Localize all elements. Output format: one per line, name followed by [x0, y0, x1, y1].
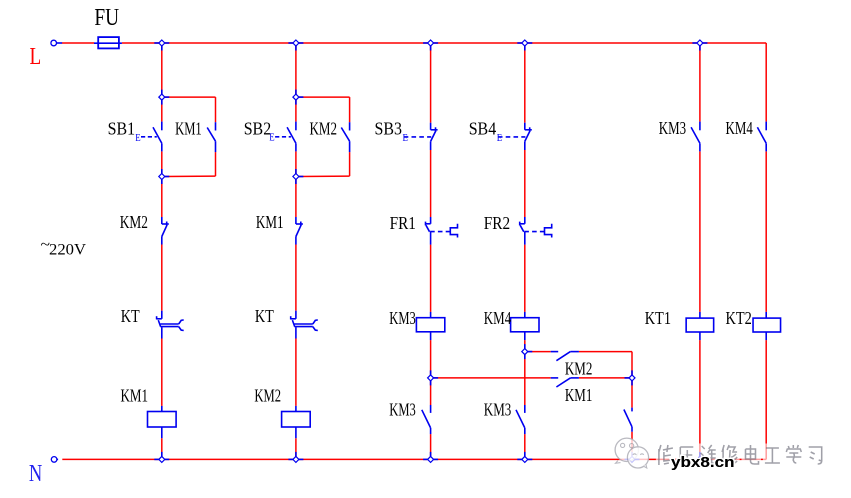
wire b1 top — [161, 43, 163, 97]
label KM1 interlock — [256, 212, 284, 232]
svg-text:KM1: KM1 — [565, 385, 593, 405]
coil KM1 — [148, 406, 177, 438]
thermal relay contact FR2 (NC) — [519, 217, 551, 245]
label KT2 — [726, 308, 752, 328]
contact KM1 (NO, horizontal line 2) — [551, 378, 579, 387]
label KM4 coil — [484, 308, 511, 328]
label KM4 branch7 — [726, 118, 753, 138]
svg-text:KM1: KM1 — [256, 212, 284, 232]
wire b3 contact-to-N — [430, 434, 432, 459]
push button SB2 (NO) — [287, 122, 296, 152]
coil KM3 — [416, 312, 444, 340]
wire b7 coil-to-N — [765, 340, 767, 459]
SB2 actuator dashed link — [275, 136, 291, 138]
svg-text:SB1: SB1 — [108, 119, 136, 139]
contact KM2 (NO seal-in, branch 2) — [341, 122, 349, 152]
wire b1 loop-bottom-to-KM2 — [161, 177, 163, 218]
wire b4 coil-to-node — [524, 340, 526, 352]
svg-text:KM4: KM4 — [484, 308, 511, 328]
wire L bus segment 2 — [122, 42, 766, 44]
contact KM1 (NO, branch 5) — [624, 408, 632, 432]
svg-text:KT: KT — [121, 306, 140, 326]
svg-text:KM1: KM1 — [175, 119, 202, 139]
wire line1 right — [579, 351, 632, 353]
wire b2 SB2-to-loop-bottom — [295, 151, 297, 176]
label KM2 seal-in — [310, 119, 338, 139]
label ~220V tilde — [41, 237, 51, 254]
node N-b5 — [625, 452, 640, 463]
label KM3 branch6 — [659, 118, 686, 138]
svg-text:KM4: KM4 — [726, 118, 753, 138]
node N-b2 — [288, 452, 303, 463]
node N-b1 — [154, 452, 169, 463]
wire b5 line1-to-node — [631, 352, 633, 378]
svg-text:SB3: SB3 — [375, 119, 403, 139]
terminal N — [51, 457, 58, 463]
contact KM1 (NC interlock, branch 2) — [296, 217, 303, 245]
svg-text:FU: FU — [94, 4, 119, 31]
node b2 seal-in top — [293, 90, 304, 105]
svg-text:N: N — [29, 460, 43, 487]
label KT branch1 — [121, 306, 140, 326]
node L-b1 — [154, 40, 169, 51]
wire b2 loop top-to-SB2 — [295, 97, 297, 122]
node L-b6 — [692, 40, 707, 51]
svg-text:E: E — [135, 133, 140, 144]
label SB2 — [244, 119, 272, 139]
wire b6 top — [699, 43, 701, 122]
contact KM3 (NO, branch 4 bottom) — [516, 405, 525, 434]
wire b5 node-to-contact — [631, 378, 633, 408]
node b1 seal-in top — [159, 90, 170, 105]
label KM3 coil — [389, 308, 416, 328]
wire b2 loop-bottom-to-KM1 — [295, 177, 297, 218]
label ~220V value — [49, 242, 87, 259]
wire b5 contact-to-N — [631, 432, 633, 460]
push button SB1 (NO) — [153, 122, 162, 152]
svg-text:KM2: KM2 — [565, 359, 593, 379]
contact KM3 (NO, branch 6) — [691, 122, 700, 152]
push button SB4 (NC) — [525, 123, 532, 150]
contact KM1 (NO seal-in, branch 1) — [207, 122, 215, 152]
label KT1 — [645, 308, 671, 328]
svg-text:E: E — [269, 133, 274, 144]
svg-text:FR1: FR1 — [390, 213, 416, 233]
label FR2 — [484, 213, 510, 233]
node L-b3 — [423, 40, 438, 51]
time relay contact KT (NC delayed, branch 1) — [156, 311, 183, 339]
svg-text:KM1: KM1 — [121, 385, 149, 405]
contact KM2 (NC interlock, branch 1) — [162, 217, 169, 245]
label KM2 coil — [254, 385, 281, 405]
label KM1 seal-in — [175, 119, 202, 139]
wire b3 FR1-to-coil — [430, 245, 432, 312]
svg-text:E: E — [403, 133, 408, 144]
wire b4 node-to-KM3contact — [524, 352, 526, 405]
wire b3 coil-to-node — [430, 340, 432, 378]
wire b1 seal-in loop bottom rail — [165, 152, 216, 176]
label FU — [94, 4, 119, 31]
wire b1 seal-in loop top rail — [165, 97, 216, 122]
label SB1 — [108, 119, 136, 139]
wire b4 FR2-to-coil — [524, 245, 526, 312]
node L-b2 — [288, 40, 303, 51]
wire b6 contact-to-coil — [699, 152, 701, 312]
svg-text:ybx8.cn: ybx8.cn — [671, 455, 735, 471]
wire b3 top — [430, 43, 432, 123]
coil KM4 — [511, 312, 539, 340]
wire N bus — [62, 458, 766, 460]
svg-text:FR2: FR2 — [484, 213, 510, 233]
label N — [29, 460, 43, 487]
label KM1 horizontal — [565, 385, 593, 405]
wire b1 coil-to-N — [161, 438, 163, 459]
svg-text:KM3: KM3 — [659, 118, 686, 138]
svg-text:KM3: KM3 — [389, 400, 416, 420]
svg-text:SB4: SB4 — [469, 119, 497, 139]
wire b3 SB3-to-FR1 — [430, 150, 432, 217]
SB3 actuator dashed link — [404, 136, 432, 138]
svg-text:KT2: KT2 — [726, 308, 752, 328]
svg-text:L: L — [30, 43, 42, 70]
wire line1 left — [528, 351, 551, 353]
label SB4 — [469, 119, 497, 139]
wire b4 top — [524, 43, 526, 123]
terminal L — [51, 40, 62, 46]
wire line2 right — [579, 377, 629, 379]
contact KM4 (NO, branch 7) — [757, 122, 766, 152]
node L-b4 — [517, 40, 532, 51]
coil KM2 — [282, 406, 311, 438]
label SB2 E — [269, 133, 274, 144]
node N-b4 — [517, 452, 532, 463]
fuse FU — [94, 37, 122, 48]
svg-text:SB2: SB2 — [244, 119, 272, 139]
wire b2 KT-to-coil — [295, 339, 297, 406]
coil KT1 — [686, 312, 714, 340]
wire b1 KM2-to-KT — [161, 245, 163, 311]
coil KT2 — [753, 312, 781, 340]
node b4 line1 — [522, 344, 533, 359]
watermark text ybx8.cn — [671, 455, 735, 471]
svg-text:KM3: KM3 — [484, 400, 512, 420]
wire b2 KM1-to-KT — [295, 245, 297, 311]
label KM3 bottom b4 — [484, 400, 512, 420]
label KM2 horizontal — [565, 359, 593, 379]
svg-text:KM2: KM2 — [254, 385, 281, 405]
wire b4 SB4-to-FR2 — [524, 150, 526, 217]
wire b3 node-to-KM3contact — [430, 378, 432, 405]
label SB1 E — [135, 133, 140, 144]
label SB3 — [375, 119, 403, 139]
push button SB3 (NC) — [431, 123, 438, 150]
wire b2 top — [295, 43, 297, 97]
wire b1 KT-to-coil — [161, 339, 163, 406]
node b5 line2 — [625, 370, 636, 385]
thermal relay contact FR1 (NC) — [425, 217, 457, 245]
wire L bus segment 1 — [62, 42, 94, 44]
wire b1 SB1-to-loop-bottom — [161, 151, 163, 176]
label SB4 E — [497, 133, 502, 144]
node N-b6 — [692, 452, 707, 463]
wire b6 coil-to-N — [699, 340, 701, 459]
node N-b3 — [423, 452, 438, 463]
wire b2 coil-to-N — [295, 438, 297, 459]
SB4 actuator dashed link — [498, 136, 526, 138]
label KT branch2 — [255, 306, 274, 326]
label KM3 bottom b3 — [389, 400, 416, 420]
label SB3 E — [403, 133, 408, 144]
SB1 actuator dashed link — [141, 136, 157, 138]
wire b1 loop top-to-SB1 — [161, 97, 163, 122]
label KM2 interlock — [120, 212, 148, 232]
label KM1 coil — [121, 385, 149, 405]
time relay contact KT (NC delayed, branch 2) — [290, 311, 317, 339]
wire b7 top — [765, 43, 767, 122]
svg-text:KT: KT — [255, 306, 274, 326]
wire line2 left — [434, 377, 551, 379]
contact KM3 (NO, branch 3 bottom) — [422, 405, 431, 434]
watermark logo (chat pandas) — [615, 438, 649, 468]
svg-text:KM2: KM2 — [310, 119, 338, 139]
node b3 line2 — [428, 370, 439, 385]
contact KM2 (NO, horizontal line 1) — [551, 352, 579, 361]
node b1 seal-in bottom — [159, 169, 170, 184]
watermark text di-ya-wei-xiu-dian-gong-xue-xi — [656, 444, 825, 467]
wire b2 seal-in loop top rail — [299, 97, 350, 122]
svg-text:KT1: KT1 — [645, 308, 671, 328]
node b2 seal-in bottom — [293, 169, 304, 184]
label L — [30, 43, 42, 70]
svg-text:KM2: KM2 — [120, 212, 148, 232]
wire b2 seal-in loop bottom rail — [299, 152, 350, 176]
svg-text:KM3: KM3 — [389, 308, 416, 328]
wire b4 contact-to-N — [524, 434, 526, 459]
svg-text:E: E — [497, 133, 502, 144]
wire b7 contact-to-coil — [765, 152, 767, 312]
label FR1 — [390, 213, 416, 233]
svg-text:220V: 220V — [49, 242, 87, 259]
